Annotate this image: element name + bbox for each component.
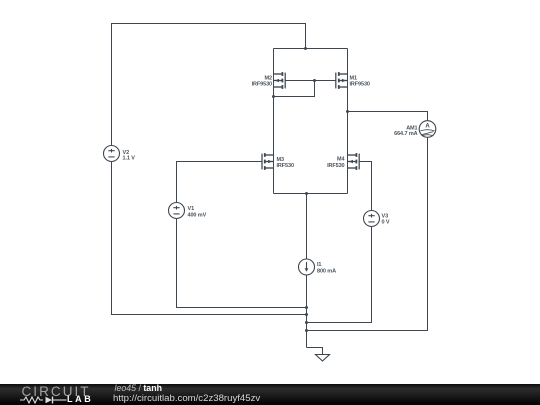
voltage source V1 bbox=[169, 203, 185, 219]
wire ground jog bbox=[307, 348, 323, 355]
node: V2 return junction bbox=[305, 313, 308, 316]
svg-text:M4: M4 bbox=[337, 157, 345, 163]
ammeter AM1 bbox=[419, 121, 436, 138]
node: M1 drain junction bbox=[346, 110, 349, 113]
voltage source V2 bbox=[104, 146, 120, 162]
transistor M4 IRF530 bbox=[348, 153, 360, 170]
footer logo LAB bbox=[67, 395, 93, 404]
wire tail to I1 bbox=[306, 194, 308, 268]
wire V2 bottom return bbox=[112, 162, 307, 315]
current source I1 bbox=[299, 259, 315, 275]
node: top rail junction bbox=[304, 47, 307, 50]
node: V3 return junction bbox=[305, 321, 308, 324]
svg-text:V1: V1 bbox=[188, 206, 195, 212]
svg-text:0 V: 0 V bbox=[382, 219, 390, 225]
ground bbox=[316, 355, 330, 362]
transistor M2 IRF9530 bbox=[274, 72, 286, 89]
footer url bbox=[113, 394, 260, 404]
wire V3 bottom return bbox=[307, 219, 372, 323]
svg-text:I1: I1 bbox=[317, 262, 321, 268]
footer logo squiggle bbox=[19, 395, 67, 405]
wire V1 bottom return bbox=[177, 211, 307, 308]
svg-text:IRF9530: IRF9530 bbox=[350, 82, 370, 88]
footer logo CIRCUIT bbox=[22, 385, 91, 399]
transistor M3 IRF530 bbox=[262, 153, 274, 170]
svg-text:IRF530: IRF530 bbox=[277, 163, 294, 169]
footer bar bbox=[0, 384, 540, 405]
voltage source V3 bbox=[364, 211, 380, 227]
svg-text:IRF530: IRF530 bbox=[327, 163, 344, 169]
svg-text:664.7 mA: 664.7 mA bbox=[394, 131, 417, 137]
wire gate interconnect M2-M1 bbox=[285, 80, 336, 82]
node: gate interconnect junction bbox=[313, 79, 316, 82]
wire I1 to ground net bbox=[306, 267, 308, 348]
svg-text:400 mV: 400 mV bbox=[188, 212, 207, 218]
wire M4 gate to V3 bbox=[359, 162, 371, 219]
wire tail rail bbox=[274, 193, 348, 195]
wire right column M1-M4 bbox=[347, 49, 349, 194]
footer title bbox=[115, 384, 162, 393]
wire V2 top loop bbox=[112, 24, 306, 146]
wire left column M2-M3 bbox=[273, 49, 275, 194]
svg-text:800 mA: 800 mA bbox=[317, 269, 336, 275]
node: V1 return junction bbox=[305, 306, 308, 309]
node: M2 drain junction bbox=[272, 95, 275, 98]
node: tail rail junction bbox=[305, 192, 308, 195]
wire M1 drain to AM1 bbox=[348, 112, 428, 130]
svg-text:IRF9530: IRF9530 bbox=[252, 82, 272, 88]
transistor M1 IRF9530 bbox=[336, 72, 348, 89]
wire AM1 bottom return bbox=[307, 129, 428, 331]
svg-text:1.1 V: 1.1 V bbox=[123, 156, 136, 162]
svg-text:A: A bbox=[425, 123, 430, 129]
wire M3 gate to V1 bbox=[177, 162, 263, 211]
wire top rail bbox=[274, 48, 348, 50]
wire M2 diode connection bbox=[274, 81, 315, 97]
node: AM1 return junction bbox=[305, 329, 308, 332]
